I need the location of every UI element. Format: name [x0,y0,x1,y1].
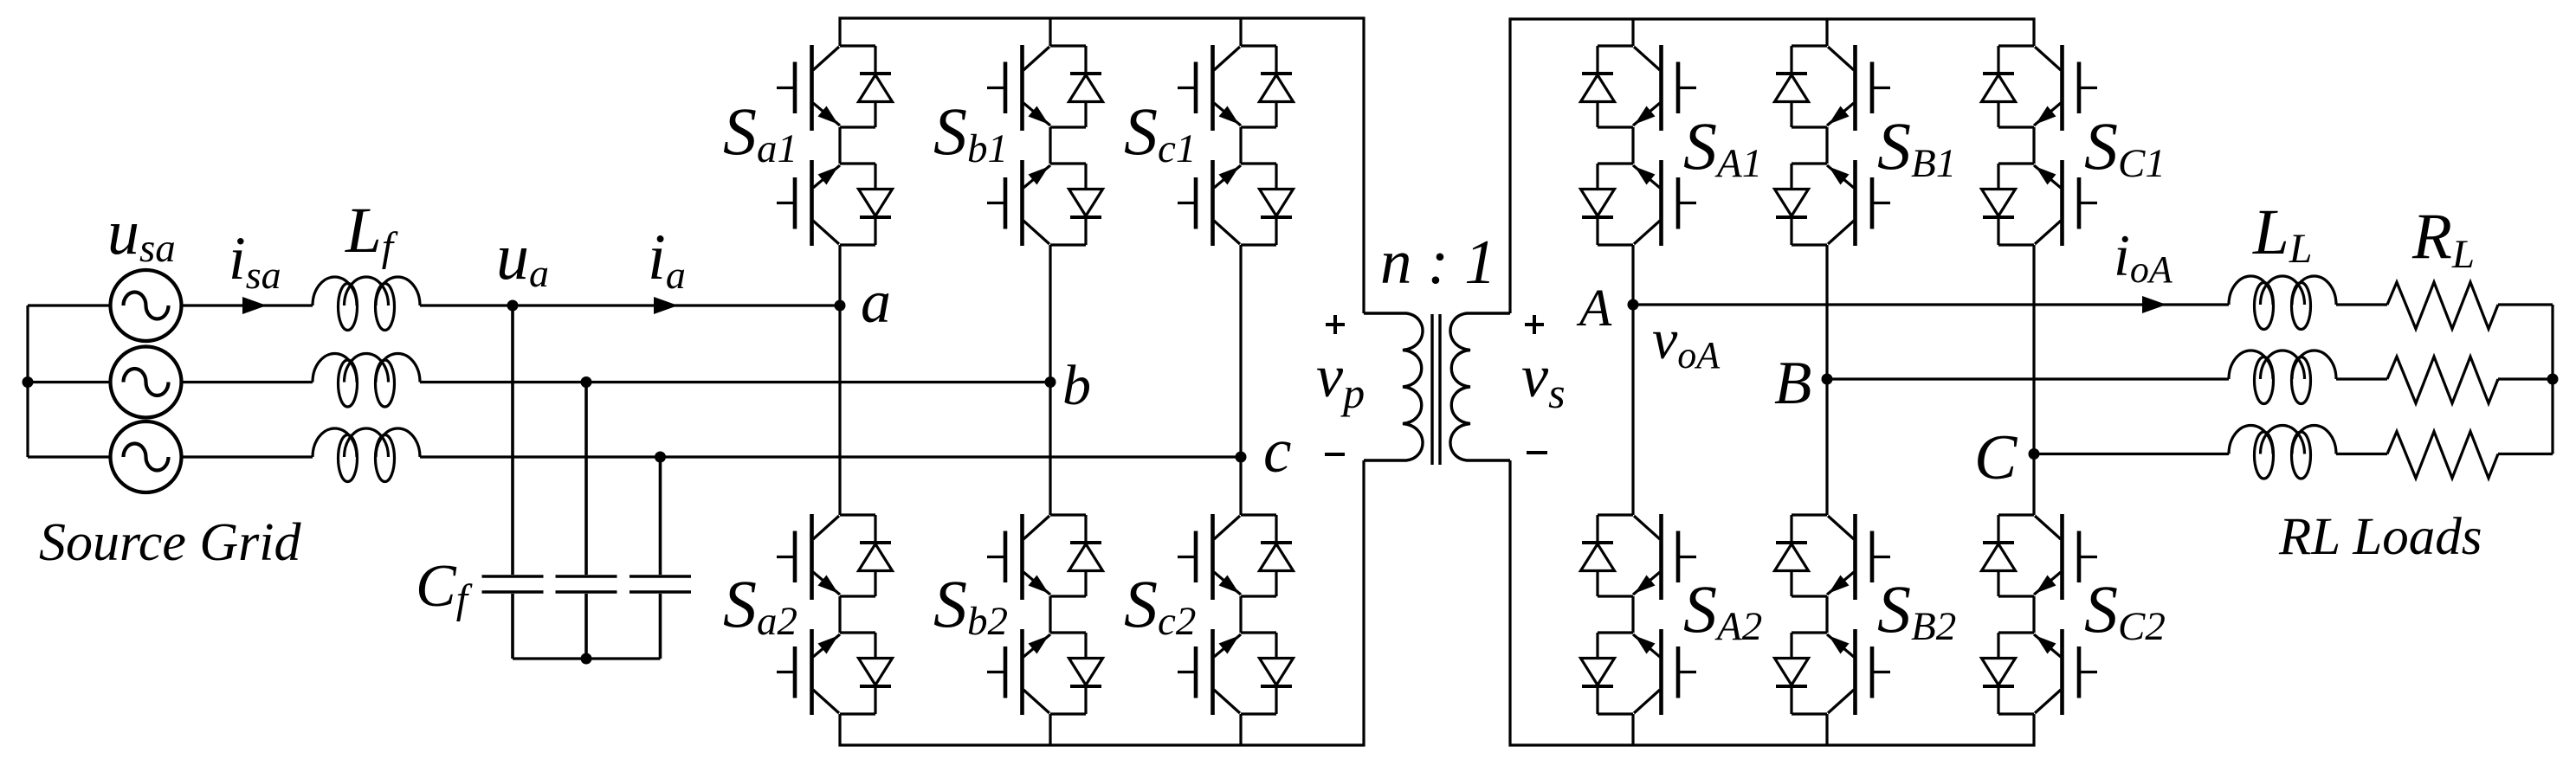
wire phase B resistor to load bus [2498,377,2553,380]
wire phase a source to inductor [182,304,313,306]
voltage source u_sa [111,270,182,341]
junction dot source bus [23,376,34,388]
wire phase B output [1827,377,2229,380]
transformer minus primary [1325,453,1345,456]
wire column A middle [1631,245,1634,515]
voltage source phase b [111,347,182,418]
node ua junction dot [507,300,519,312]
wire capacitor bottom bus [513,657,661,659]
switch Sb2 [987,514,1103,715]
switch SB1 [1775,45,1891,246]
node B junction dot [1822,374,1833,385]
transformer n:1 [1364,313,1510,465]
junction dot capacitor bus [581,653,592,665]
wire phase A output [1633,303,2229,306]
wire left source bus [26,306,29,457]
wire phase a inductor to node a [420,304,840,306]
wire top bus stub column c [1239,18,1242,46]
voltage source phase c [111,421,182,492]
wire column C middle [2032,245,2035,515]
wire right converter top bus [1510,19,2034,313]
wire right converter bottom bus [1510,460,2034,745]
switch Sc2 [1178,514,1294,715]
svg-text:RL Loads: RL Loads [2278,508,2482,566]
wire bottom bus stub column A [1631,714,1634,745]
wire phase b source to inductor [182,381,313,383]
svg-text:c: c [1263,415,1291,486]
switch Sa2 [777,514,893,715]
svg-text:C: C [1974,422,2018,493]
svg-text:b: b [1062,354,1091,417]
wire top bus stub column A [1631,19,1634,46]
node c junction dot [1236,452,1247,463]
inductor Lf phase b [313,354,420,408]
inductor Lf phase a [313,277,420,331]
transformer plus secondary [1525,315,1544,334]
capacitor Cf phase b [556,383,617,659]
capacitor Cf phase a [482,306,544,659]
switch Sa1 [777,45,893,246]
wire bottom bus stub column b [1049,714,1051,745]
wire phase C output [2034,453,2229,455]
svg-text:n : 1: n : 1 [1380,227,1496,297]
junction dot phase c capacitor tap [655,452,666,463]
wire load neutral bus [2551,305,2553,454]
wire phase c inductor to node c [420,455,1241,458]
wire phase a from bus to source [28,304,111,306]
switch Sc1 [1178,45,1294,246]
wire phase A inductor to resistor [2336,303,2387,306]
wire column c middle [1239,245,1242,515]
load resistor RL phase C [2387,432,2498,479]
node C junction dot [2029,448,2040,460]
switch SC1 [1982,45,2098,246]
load resistor RL phase B [2387,357,2498,403]
wire phase C inductor to resistor [2336,453,2387,455]
wire bottom bus stub column c [1239,714,1242,745]
wire left converter bottom bus [840,460,1364,745]
switch SB2 [1775,514,1891,715]
wire column B middle [1825,245,1828,515]
switch Sb1 [987,45,1103,246]
load inductor LL phase B [2229,351,2336,404]
wire column a middle [838,245,841,515]
junction dot phase b capacitor tap [581,376,592,388]
wire top bus stub column b [1049,18,1051,46]
svg-text:A: A [1576,280,1612,338]
wire phase A resistor to load bus [2498,303,2553,306]
wire bottom bus stub column B [1825,714,1828,745]
primary winding [1364,313,1423,460]
wire left converter top bus [840,18,1364,313]
capacitor Cf phase c [629,457,691,659]
wire phase C resistor to load bus [2498,453,2553,455]
arrow ia [654,297,678,314]
transformer plus primary [1325,315,1547,454]
junction dot load bus [2547,374,2559,385]
svg-text:Source Grid: Source Grid [39,513,301,572]
svg-text:a: a [861,269,891,336]
switch SC2 [1982,514,2098,715]
wire phase B inductor to resistor [2336,377,2387,380]
inductor Lf phase c [313,428,420,482]
load inductor LL phase A [2229,276,2336,330]
arrow ioA [2142,296,2166,313]
wire phase c from bus to source [28,455,111,458]
transformer minus secondary [1527,451,1547,454]
wire top bus stub column B [1825,19,1828,46]
wire column b middle [1049,245,1051,515]
arrow isa [242,297,267,314]
node A junction dot [1628,299,1639,311]
load resistor RL phase A [2387,282,2498,329]
wire phase b from bus to source [28,381,111,383]
wire phase b inductor to node b [420,381,1050,383]
switch SA1 [1581,45,1697,246]
switch SA2 [1581,514,1697,715]
secondary winding [1450,313,1510,460]
node a junction dot [835,300,846,312]
transformer core [1432,314,1440,465]
wire phase c source to inductor [182,455,313,458]
load inductor LL phase C [2229,426,2336,479]
node b junction dot [1045,376,1056,388]
svg-text:B: B [1774,350,1811,417]
